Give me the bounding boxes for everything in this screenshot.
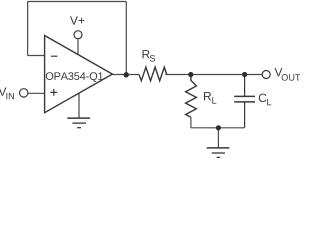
op-amp inverting input minus symbol	[51, 55, 57, 57]
capacitor CL top plate	[234, 95, 255, 97]
wire ground stem bottom	[217, 128, 219, 148]
ground bottom bar2	[212, 152, 225, 154]
capacitor CL bottom plate	[234, 101, 255, 103]
capacitor CL bottom stem	[244, 102, 246, 128]
node output junction	[124, 72, 129, 77]
wire op-amp output	[112, 74, 138, 76]
terminal V+	[74, 31, 82, 39]
label V+	[70, 16, 84, 24]
wire feedback left	[27, 2, 29, 56]
label RS	[143, 50, 156, 61]
op-amp U1 OPA354-Q1 triangle	[45, 36, 113, 113]
wire feedback top	[28, 1, 127, 3]
wire V+ stem	[77, 39, 79, 55]
label VOUT	[275, 68, 301, 81]
ground op-amp bar3	[77, 127, 81, 129]
terminal VIN	[20, 89, 28, 97]
ground op-amp bar1	[67, 117, 90, 119]
wire RL bottom	[190, 117, 192, 128]
label OPA354-Q1	[46, 72, 103, 82]
node ground rail junction	[216, 125, 221, 130]
wire op-amp V- to ground	[78, 93, 80, 118]
ground op-amp bar2	[72, 122, 86, 124]
terminal VOUT	[262, 71, 270, 79]
op-amp non-inverting input plus symbol	[50, 89, 57, 96]
ground bottom bar1	[207, 147, 230, 149]
capacitor CL top stem	[244, 75, 246, 97]
wire RL node to CL node	[191, 74, 245, 76]
label CL	[259, 94, 271, 106]
wire non-inverting input	[28, 92, 45, 94]
label RL	[204, 92, 216, 103]
node CL top junction	[242, 72, 247, 77]
wire RS to RL node	[165, 74, 191, 76]
wire feedback right	[125, 2, 127, 75]
wire inverting input	[28, 55, 45, 57]
ground bottom bar3	[217, 156, 221, 158]
wire bottom ground rail	[191, 127, 245, 129]
resistor RS	[139, 67, 167, 81]
node RL top junction	[188, 72, 193, 77]
wire CL node to VOUT terminal	[245, 74, 263, 76]
resistor RL	[186, 75, 197, 118]
label VIN	[0, 88, 14, 100]
